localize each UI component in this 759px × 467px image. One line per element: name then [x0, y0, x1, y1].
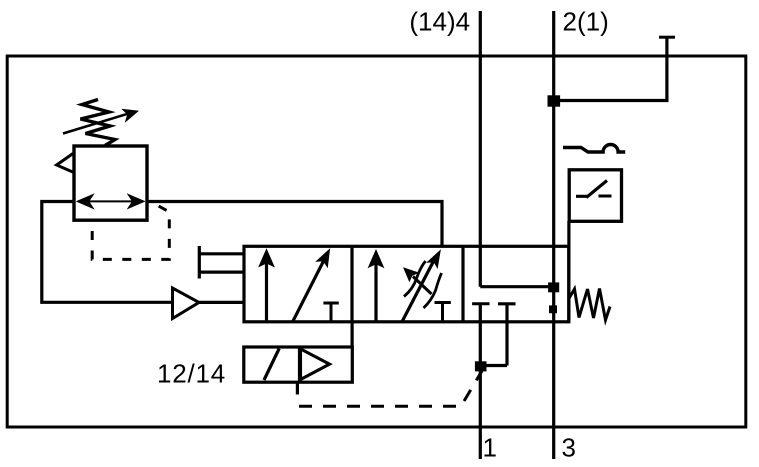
valve return spring	[569, 289, 610, 321]
wire plug branch horizontal	[554, 39, 667, 101]
regulator arrow right head	[127, 193, 146, 209]
dashed pilot line to J4	[299, 371, 482, 406]
enclosure	[7, 56, 746, 427]
wire regulator right to valve top	[147, 202, 442, 247]
svg-text:1: 1	[483, 433, 497, 463]
regulator pilot dashed loop	[92, 203, 169, 259]
wire port 2(1)/3 vertical	[552, 11, 555, 459]
compartment3 port T second	[498, 304, 516, 366]
compartment3 port T on line 1	[472, 302, 489, 305]
junction J1 (2-line to plug branch)	[548, 95, 561, 106]
svg-text:2(1): 2(1)	[563, 7, 609, 37]
position2 blocked port T	[435, 303, 451, 322]
position1 blocked port T	[323, 303, 338, 322]
svg-text:(14)4: (14)4	[409, 7, 470, 37]
wire internal 4-to-2 horizontal	[480, 285, 554, 288]
plugged port line upper	[199, 252, 244, 255]
svg-text:3: 3	[562, 432, 576, 462]
solenoid stroke	[264, 349, 279, 381]
pilot valve stem	[296, 382, 299, 394]
regulator box	[74, 146, 147, 220]
position1 flow arrow diagonal	[293, 259, 325, 322]
valve divider 1	[350, 246, 353, 321]
plug T bar	[659, 36, 675, 39]
pilot amplifier triangle	[173, 288, 200, 319]
regulator double arrow shaft	[88, 200, 133, 202]
wire port 1 vertical	[479, 304, 482, 459]
wire port stub to junction J4	[486, 364, 507, 367]
plugged ports bar	[198, 246, 201, 279]
svg-text:12/14: 12/14	[157, 358, 226, 388]
position2 throttle arc right	[424, 273, 442, 308]
pressure switch box	[569, 170, 621, 222]
valve body outline	[244, 246, 569, 321]
regulator adjustment spring	[81, 100, 116, 146]
regulator adjustment arrow	[63, 114, 128, 134]
plugged port line lower	[199, 271, 244, 274]
junction J3 small square on 3-line	[549, 305, 557, 313]
position2 throttle main arrow	[402, 259, 435, 322]
regulator relief triangle	[57, 154, 73, 173]
junction J2 (internal line to 3-line)	[548, 282, 559, 292]
pilot triangle	[301, 349, 330, 380]
pressure switch contact	[576, 181, 612, 198]
pilot valve divider	[298, 347, 301, 382]
wire amplifier to valve	[199, 301, 244, 304]
regulator arrow left head	[76, 193, 95, 209]
junction J4	[475, 361, 487, 371]
pressure switch actuator lever	[563, 145, 625, 152]
wire port 4(14) vertical	[479, 11, 482, 287]
position1 flow arrow vertical	[265, 262, 268, 322]
position2 throttle back arrow	[413, 277, 432, 295]
position2 throttle arc left	[404, 261, 426, 297]
wire regulator left	[42, 202, 173, 303]
valve divider 2	[461, 246, 464, 321]
pilot valve box	[244, 347, 352, 382]
position2 flow arrow vertical	[374, 263, 377, 322]
pilot valve connector	[351, 322, 354, 347]
wire switch to valve right end	[567, 221, 570, 322]
